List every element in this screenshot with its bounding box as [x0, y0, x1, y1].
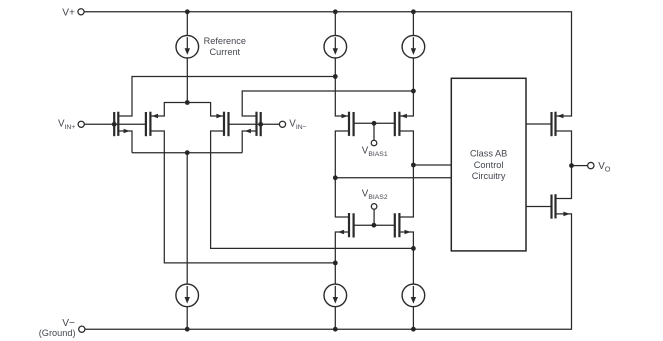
- svg-text:VBIAS2: VBIAS2: [362, 188, 388, 200]
- svg-text:(Ground): (Ground): [39, 328, 76, 338]
- svg-text:Reference: Reference: [204, 36, 246, 46]
- svg-text:VO: VO: [598, 161, 611, 173]
- svg-text:VBIAS1: VBIAS1: [362, 146, 388, 158]
- svg-text:V+: V+: [62, 7, 75, 18]
- svg-text:Circuitry: Circuitry: [472, 171, 506, 181]
- svg-text:Current: Current: [209, 47, 240, 57]
- svg-text:VIN+: VIN+: [58, 118, 75, 130]
- svg-text:VIN−: VIN−: [289, 118, 306, 130]
- svg-text:Class AB: Class AB: [470, 149, 507, 159]
- svg-text:Control: Control: [474, 160, 504, 170]
